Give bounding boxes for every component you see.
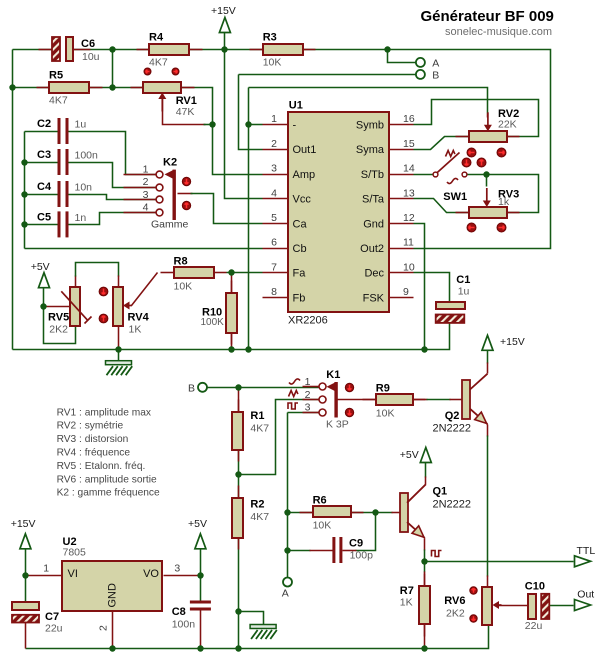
- svg-text:22u: 22u: [45, 623, 63, 635]
- svg-text:R6: R6: [313, 495, 327, 507]
- svg-text:3: 3: [174, 562, 180, 574]
- svg-text:R3: R3: [263, 32, 277, 44]
- svg-text:SW1: SW1: [443, 191, 467, 203]
- svg-text:Out: Out: [577, 589, 594, 601]
- svg-text:5: 5: [271, 212, 277, 224]
- svg-text:C10: C10: [525, 580, 545, 592]
- svg-text:11: 11: [403, 237, 414, 249]
- svg-text:22K: 22K: [498, 119, 517, 131]
- svg-text:C6: C6: [81, 38, 95, 50]
- svg-text:1: 1: [43, 562, 49, 574]
- svg-text:TTL: TTL: [577, 545, 596, 557]
- svg-text:+15V: +15V: [211, 5, 236, 17]
- svg-text:R8: R8: [174, 255, 188, 267]
- svg-text:S/Tb: S/Tb: [361, 169, 384, 181]
- svg-text:RV2 : symétrie: RV2 : symétrie: [57, 421, 124, 432]
- svg-text:+5V: +5V: [400, 449, 419, 461]
- svg-text:R9: R9: [376, 382, 390, 394]
- svg-text:2N2222: 2N2222: [433, 423, 472, 435]
- svg-text:R4: R4: [149, 32, 164, 44]
- svg-text:K2: K2: [163, 157, 177, 169]
- svg-text:10u: 10u: [82, 51, 100, 63]
- svg-text:1: 1: [143, 163, 149, 175]
- svg-text:22u: 22u: [525, 620, 543, 632]
- svg-text:100n: 100n: [172, 619, 196, 631]
- svg-text:10K: 10K: [174, 280, 193, 292]
- svg-text:R5: R5: [49, 70, 63, 82]
- svg-text:Symb: Symb: [356, 120, 384, 132]
- svg-text:sonelec-musique.com: sonelec-musique.com: [445, 26, 552, 38]
- svg-text:8: 8: [271, 286, 277, 298]
- svg-text:C5: C5: [37, 211, 51, 223]
- svg-text:+5V: +5V: [188, 518, 207, 530]
- svg-text:Out1: Out1: [293, 144, 317, 156]
- svg-text:Dec: Dec: [364, 268, 384, 280]
- svg-text:Fb: Fb: [293, 292, 306, 304]
- svg-text:C3: C3: [37, 149, 51, 161]
- svg-text:Q2: Q2: [445, 410, 460, 422]
- svg-text:15: 15: [403, 138, 415, 150]
- svg-text:R1: R1: [250, 410, 264, 422]
- svg-text:4K7: 4K7: [250, 423, 269, 435]
- svg-text:Gamme: Gamme: [151, 219, 189, 231]
- svg-text:3: 3: [271, 163, 277, 175]
- svg-text:4K7: 4K7: [149, 57, 168, 69]
- svg-text:VI: VI: [68, 568, 78, 580]
- svg-text:1u: 1u: [75, 119, 87, 131]
- svg-text:Syma: Syma: [356, 144, 385, 156]
- svg-text:Out2: Out2: [360, 243, 384, 255]
- svg-text:4: 4: [271, 187, 277, 199]
- svg-text:C2: C2: [37, 118, 51, 130]
- svg-text:47K: 47K: [176, 106, 195, 118]
- svg-text:Q1: Q1: [433, 486, 448, 498]
- svg-text:1K: 1K: [400, 597, 413, 609]
- svg-text:14: 14: [403, 163, 415, 175]
- svg-text:100p: 100p: [350, 550, 374, 562]
- svg-text:RV6: RV6: [444, 595, 465, 607]
- svg-text:R2: R2: [250, 499, 264, 511]
- svg-text:+15V: +15V: [500, 336, 525, 348]
- svg-text:13: 13: [403, 187, 415, 199]
- svg-text:9: 9: [403, 286, 409, 298]
- svg-text:7805: 7805: [63, 547, 87, 559]
- svg-text:4K7: 4K7: [250, 511, 269, 523]
- svg-text:VO: VO: [143, 568, 159, 580]
- svg-text:1K: 1K: [129, 324, 142, 336]
- svg-text:RV3 : distorsion: RV3 : distorsion: [57, 434, 129, 445]
- svg-text:RV4: RV4: [128, 312, 150, 324]
- svg-text:2K2: 2K2: [49, 324, 68, 336]
- svg-text:10: 10: [403, 261, 415, 273]
- svg-text:1k: 1k: [498, 196, 510, 208]
- svg-text:3: 3: [143, 189, 149, 201]
- svg-text:RV6 : amplitude sortie: RV6 : amplitude sortie: [57, 474, 157, 485]
- svg-text:FSK: FSK: [363, 292, 385, 304]
- svg-text:U1: U1: [289, 100, 303, 112]
- svg-text:Amp: Amp: [293, 169, 316, 181]
- svg-text:10K: 10K: [376, 407, 395, 419]
- svg-text:GND: GND: [107, 583, 119, 608]
- svg-text:+5V: +5V: [31, 261, 50, 273]
- svg-text:4K7: 4K7: [49, 95, 68, 107]
- svg-text:+15V: +15V: [11, 518, 36, 530]
- svg-text:Cb: Cb: [293, 243, 307, 255]
- svg-text:RV5 : Etalonn. fréq.: RV5 : Etalonn. fréq.: [57, 461, 146, 472]
- svg-text:1n: 1n: [75, 212, 87, 224]
- svg-text:R7: R7: [400, 585, 414, 597]
- svg-text:7: 7: [271, 261, 277, 273]
- svg-text:Gnd: Gnd: [363, 218, 384, 230]
- svg-text:1: 1: [271, 113, 277, 125]
- svg-text:2N2222: 2N2222: [433, 499, 472, 511]
- svg-text:3: 3: [305, 402, 311, 414]
- svg-text:10K: 10K: [313, 520, 332, 532]
- svg-text:C9: C9: [349, 538, 363, 550]
- svg-text:A: A: [282, 588, 289, 600]
- svg-text:4: 4: [143, 202, 149, 214]
- svg-text:Fa: Fa: [293, 268, 307, 280]
- svg-text:K1: K1: [326, 369, 340, 381]
- svg-text:-: -: [293, 120, 297, 132]
- svg-text:2: 2: [271, 138, 277, 150]
- svg-text:2: 2: [143, 176, 149, 188]
- svg-text:C1: C1: [456, 274, 470, 286]
- svg-text:10K: 10K: [263, 57, 282, 69]
- svg-text:XR2206: XR2206: [288, 315, 328, 327]
- svg-text:C4: C4: [37, 181, 52, 193]
- svg-text:C8: C8: [172, 606, 186, 618]
- svg-text:16: 16: [403, 113, 415, 125]
- svg-text:B: B: [188, 383, 195, 395]
- svg-text:A: A: [432, 57, 439, 69]
- svg-text:2: 2: [98, 625, 110, 631]
- svg-text:RV1 : amplitude max: RV1 : amplitude max: [57, 407, 151, 418]
- svg-text:100n: 100n: [75, 150, 99, 162]
- svg-text:12: 12: [403, 212, 415, 224]
- svg-text:S/Ta: S/Ta: [362, 194, 385, 206]
- svg-text:6: 6: [271, 237, 277, 249]
- svg-text:Vcc: Vcc: [293, 194, 312, 206]
- svg-text:C7: C7: [45, 611, 59, 623]
- svg-text:Ca: Ca: [293, 218, 308, 230]
- svg-text:Générateur BF 009: Générateur BF 009: [421, 8, 554, 25]
- svg-text:RV5: RV5: [48, 312, 69, 324]
- svg-text:RV4 : fréquence: RV4 : fréquence: [57, 448, 131, 459]
- svg-text:K 3P: K 3P: [326, 418, 349, 430]
- svg-text:2: 2: [305, 389, 311, 401]
- svg-text:100K: 100K: [201, 317, 225, 328]
- svg-text:K2 : gamme fréquence: K2 : gamme fréquence: [57, 488, 160, 499]
- svg-text:2K2: 2K2: [446, 608, 465, 620]
- svg-text:10n: 10n: [75, 182, 93, 194]
- svg-text:B: B: [432, 69, 439, 81]
- svg-text:1u: 1u: [458, 285, 470, 297]
- svg-text:1: 1: [305, 376, 311, 388]
